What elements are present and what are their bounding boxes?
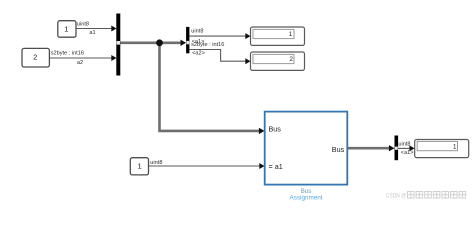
svg-text:Bus: Bus	[269, 125, 282, 134]
svg-text:uint8: uint8	[191, 28, 203, 34]
svg-text:uint8: uint8	[150, 160, 162, 166]
svg-text:uint8: uint8	[398, 142, 410, 148]
svg-text:1: 1	[453, 143, 457, 150]
svg-text:1: 1	[137, 162, 141, 171]
svg-text:2: 2	[290, 56, 294, 63]
svg-text:CSDN @: CSDN @	[386, 192, 407, 199]
svg-text:<a2>: <a2>	[192, 51, 205, 57]
svg-text:Bus: Bus	[332, 145, 345, 154]
svg-text:1: 1	[64, 24, 68, 33]
svg-text:a1: a1	[89, 30, 95, 36]
svg-text:Assignment: Assignment	[290, 194, 323, 201]
svg-text:1: 1	[289, 31, 293, 38]
svg-text:a2: a2	[77, 60, 83, 66]
svg-text:<a1>: <a1>	[401, 150, 414, 156]
svg-text:2: 2	[33, 53, 37, 62]
svg-text:s2byte : int16: s2byte : int16	[51, 51, 84, 57]
svg-text:= a1: = a1	[269, 162, 283, 171]
svg-text:uint8: uint8	[77, 21, 89, 27]
svg-text:s2byte : int16: s2byte : int16	[191, 42, 224, 48]
